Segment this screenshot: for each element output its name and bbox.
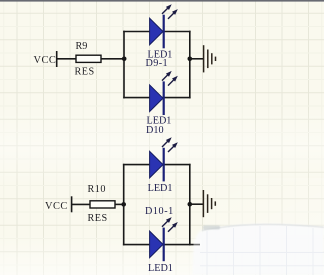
wire node to ground (bottom) (190, 203, 203, 205)
wire R9 to node left (top) (101, 58, 125, 60)
wire left rail (top circuit) (123, 31, 125, 99)
resistor R9 (76, 55, 101, 62)
junction node right (bottom) (188, 202, 193, 207)
LED D10-1 (150, 137, 178, 181)
ground (bottom) (203, 190, 215, 217)
wire VCC to R9 (57, 58, 76, 60)
junction node right (top) (188, 57, 193, 62)
wire top branch (top circuit) (123, 31, 190, 33)
resistor R10 (90, 201, 115, 208)
wire right rail (bottom circuit) (189, 164, 191, 246)
svg-text:R10: R10 (88, 184, 106, 195)
svg-text:VCC: VCC (45, 201, 68, 212)
svg-text:VCC: VCC (34, 55, 57, 66)
svg-text:D9-1: D9-1 (146, 58, 169, 69)
wire VCC to R10 (72, 203, 90, 205)
power port VCC bar (top) (56, 51, 58, 67)
LED D11 (bottom) (150, 217, 178, 261)
svg-text:D10: D10 (146, 125, 164, 136)
junction node left (bottom) (121, 202, 126, 207)
ground (top) (204, 45, 216, 72)
svg-text:RES: RES (75, 67, 95, 78)
power port VCC bar (bottom) (71, 196, 73, 212)
svg-text:RES: RES (88, 213, 108, 224)
svg-text:LED1: LED1 (148, 263, 173, 274)
wire left rail (bottom circuit) (123, 164, 125, 246)
wire right rail (top circuit) (189, 31, 191, 99)
wire top branch (bottom circuit) (123, 164, 191, 166)
svg-text:R9: R9 (76, 41, 88, 52)
LED D9-1 (150, 4, 178, 48)
svg-text:D10-1: D10-1 (145, 206, 174, 217)
junction node left (top) (122, 57, 127, 62)
LED D10 (150, 71, 178, 115)
wire bottom branch (bottom circuit) (123, 244, 200, 246)
wire R10 to node left (bottom) (115, 203, 125, 205)
wire bottom branch (top circuit) (123, 97, 190, 99)
svg-text:LED1: LED1 (148, 183, 173, 194)
wire node to ground (top) (190, 58, 203, 60)
